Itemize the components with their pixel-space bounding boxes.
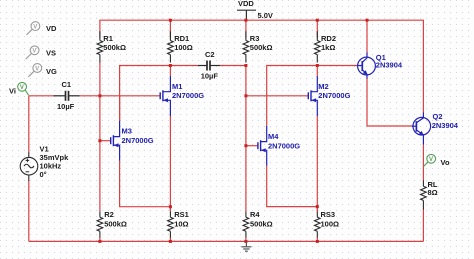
wire input line Vi to M1 gate	[29, 95, 54, 97]
wire V1 top to input corner	[28, 96, 30, 153]
arrow M2 source	[311, 98, 316, 102]
svg-text:V: V	[429, 157, 433, 163]
wire Q2 emitter to RL	[422, 145, 424, 181]
wire C1 out to M1 gate	[79, 95, 160, 97]
probe Vi	[18, 82, 29, 95]
svg-text:100Ω: 100Ω	[174, 43, 193, 52]
resistor RL	[421, 180, 427, 209]
resistor RD2	[314, 31, 320, 62]
wire C2 out to divider node	[220, 65, 246, 67]
transistor Q1	[357, 53, 376, 79]
svg-text:2N7000G: 2N7000G	[318, 91, 350, 100]
junction M1-M3 sources-RS1	[169, 205, 172, 208]
capacitor C2	[198, 61, 220, 71]
wire R3/R4 divider vertical	[245, 66, 247, 212]
wire R4 bottom to rail	[245, 237, 247, 241]
arrow Q1 emitter	[363, 70, 368, 75]
svg-text:500kΩ: 500kΩ	[250, 43, 273, 52]
wire R1-R2 divider vertical	[99, 63, 101, 212]
svg-text:V: V	[33, 25, 37, 31]
svg-text:Vo: Vo	[441, 158, 450, 167]
svg-text:VD: VD	[46, 24, 57, 33]
wire RS3 bottom to rail	[316, 237, 318, 241]
wire M1 drain to RD1 node	[169, 66, 171, 77]
wire RD1 top lead to rail	[169, 20, 171, 37]
wire M2 gate line	[246, 95, 308, 97]
junction rail-RD1	[169, 19, 172, 22]
svg-text:C2: C2	[205, 50, 215, 59]
wire Q1 collector to rail	[366, 20, 368, 53]
svg-text:100Ω: 100Ω	[321, 219, 340, 228]
mosfet M3	[110, 121, 119, 161]
svg-text:500kΩ: 500kΩ	[104, 219, 127, 228]
junction rail-RS1	[169, 240, 172, 243]
junction C2 out-R3-R4	[244, 64, 247, 67]
wire RL bottom to rail	[422, 209, 424, 241]
svg-text:M4: M4	[268, 132, 279, 141]
svg-text:500kΩ: 500kΩ	[103, 43, 126, 52]
junction rail-RD2	[316, 19, 319, 22]
resistor RD1	[168, 31, 174, 62]
svg-text:2N7000G: 2N7000G	[268, 141, 300, 150]
junction RD2-M2 drain-Q1 base	[316, 64, 319, 67]
mosfet M4	[257, 126, 266, 166]
junction RD1-M1 drain-C2 line	[169, 64, 172, 67]
svg-text:C1: C1	[62, 80, 72, 89]
junction M2 gate-divider	[244, 94, 247, 97]
junction input line-R1R2 divider	[98, 94, 101, 97]
probe VG	[28, 64, 41, 77]
junction M4 gate-divider	[244, 144, 247, 147]
junction rail-VDD-R3	[244, 19, 247, 22]
probe VS	[26, 46, 39, 59]
wire Q1 emitter to Q2 base	[367, 78, 413, 126]
svg-text:V: V	[32, 49, 36, 55]
svg-text:2N3904: 2N3904	[376, 60, 403, 69]
mosfet M2	[308, 76, 318, 116]
svg-text:M3: M3	[122, 126, 132, 135]
capacitor C1	[54, 91, 80, 101]
svg-text:RD2: RD2	[321, 34, 336, 43]
svg-text:VG: VG	[46, 67, 57, 76]
svg-text:10µF: 10µF	[201, 71, 219, 80]
probe Vo	[424, 154, 436, 166]
svg-text:Vi: Vi	[9, 87, 16, 96]
svg-text:V: V	[35, 66, 39, 72]
svg-text:V: V	[20, 85, 24, 91]
arrow Q2 emitter	[419, 131, 424, 136]
svg-text:VS: VS	[46, 48, 56, 57]
wire top VDD rail	[100, 20, 424, 113]
wire M3 gate tap	[100, 140, 110, 142]
svg-text:5.0V: 5.0V	[258, 11, 273, 20]
wire M1 source down to RS1	[169, 116, 171, 211]
svg-text:1kΩ: 1kΩ	[321, 43, 335, 52]
wire bottom ground rail	[29, 240, 424, 242]
transistor Q2	[412, 113, 431, 145]
wire M2 source down to RS3	[316, 116, 318, 211]
resistor R4	[243, 211, 249, 237]
wire M2 drain to RD2 node	[316, 66, 318, 77]
svg-text:RS1: RS1	[174, 210, 189, 219]
svg-text:R3: R3	[250, 34, 260, 43]
wire M3 source to RS1 junction	[120, 161, 171, 207]
junction rail-Q1 collector	[366, 19, 369, 22]
svg-text:2N3904: 2N3904	[432, 121, 459, 130]
svg-text:M2: M2	[318, 82, 328, 91]
resistor R1	[97, 31, 103, 62]
svg-text:VDD: VDD	[238, 0, 254, 8]
arrow M3 source	[114, 143, 119, 147]
junction rail-RS3	[316, 240, 319, 243]
svg-text:RS3: RS3	[321, 210, 336, 219]
probe VD	[27, 22, 40, 35]
svg-text:0°: 0°	[40, 170, 47, 179]
svg-text:M1: M1	[172, 82, 182, 91]
svg-text:2N7000G: 2N7000G	[122, 136, 154, 145]
resistor RS1	[168, 211, 174, 237]
arrow M4 source	[261, 148, 266, 152]
wire RS3 top lead	[316, 207, 318, 212]
node drain line stage1 (M3 drain, RD1/M1 drain, C2 in)	[120, 66, 199, 121]
node drain line stage2 (M4 drain, RD2/M2 drain, Q1 base)	[267, 66, 358, 126]
resistor R3	[243, 31, 249, 62]
mosfet M1	[160, 76, 171, 116]
junction M3 gate-divider	[98, 139, 101, 142]
junction rail-R2	[98, 240, 101, 243]
source V1	[20, 153, 38, 182]
svg-text:10Ω: 10Ω	[174, 219, 188, 228]
wire V1 bottom to ground rail	[28, 181, 30, 242]
wire RS1 bottom to rail	[169, 237, 171, 241]
svg-text:10µF: 10µF	[57, 102, 75, 111]
ground	[241, 241, 251, 251]
resistor RS3	[314, 211, 320, 237]
junction rail-R4-ground	[244, 240, 247, 243]
wire RS1 top lead	[169, 207, 171, 212]
svg-text:R4: R4	[250, 210, 260, 219]
wire R2 bottom to rail	[99, 237, 101, 241]
svg-text:R2: R2	[104, 210, 114, 219]
wire M4 source to RS3 junction	[267, 166, 318, 207]
svg-text:500kΩ: 500kΩ	[250, 219, 273, 228]
svg-text:2N7000G: 2N7000G	[172, 91, 204, 100]
junction M2-M4 sources-RS3	[316, 205, 319, 208]
power VDD symbol	[237, 10, 256, 19]
wire M4 gate tap	[246, 145, 258, 147]
resistor R2	[97, 211, 103, 237]
svg-text:8Ω: 8Ω	[428, 188, 438, 197]
wire R3 top lead to rail	[245, 20, 247, 37]
wire M3 drain red segment	[119, 96, 121, 121]
wire RD2 top lead to rail	[316, 20, 318, 37]
svg-text:Q2: Q2	[433, 112, 443, 121]
svg-text:RD1: RD1	[174, 34, 189, 43]
arrow M1 source	[163, 98, 168, 102]
svg-text:R1: R1	[103, 34, 113, 43]
